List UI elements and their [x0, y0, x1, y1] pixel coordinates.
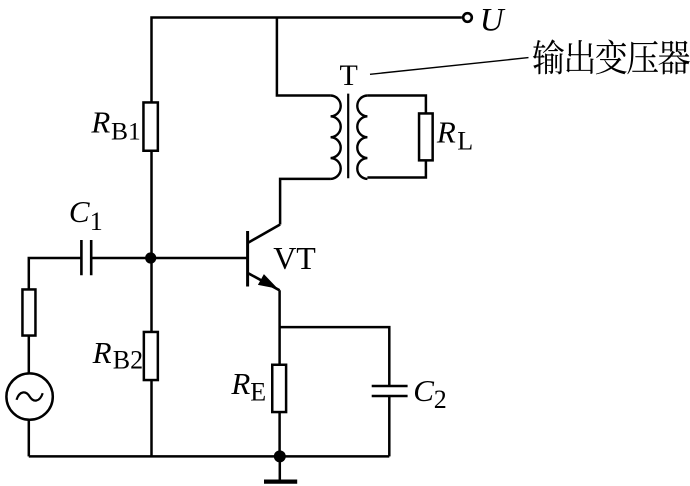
svg-text:C: C	[69, 194, 90, 229]
wire ground rail	[29, 455, 390, 458]
svg-text:R: R	[230, 366, 250, 401]
capacitor C2 plates	[372, 386, 408, 396]
svg-text:B2: B2	[113, 346, 143, 375]
wire top rail from RB1 branch to supply terminal	[152, 18, 462, 103]
wire transformer primary feed from top rail	[277, 18, 331, 96]
leader line to annotation	[370, 58, 529, 75]
resistor Rs source box	[22, 289, 35, 335]
wire base node down to RB2	[150, 258, 153, 332]
transformer T primary winding	[331, 96, 341, 179]
transformer core	[347, 94, 349, 179]
wire source bottom to ground rail	[28, 420, 31, 457]
svg-text:E: E	[250, 377, 266, 406]
resistor RB2 box	[144, 332, 158, 380]
transistor VT collector diagonal	[248, 225, 280, 243]
svg-text:2: 2	[434, 385, 447, 414]
transistor VT base bar	[246, 231, 249, 287]
wire C2 bottom to ground rail	[388, 396, 391, 456]
wire primary bottom lead to collector	[280, 179, 331, 225]
label 输出变压器 output transformer annotation	[533, 39, 690, 74]
svg-text:R: R	[436, 115, 456, 150]
resistor RB1 box	[143, 102, 157, 150]
ground stub	[279, 456, 282, 480]
transistor VT emitter arrowhead	[258, 274, 278, 289]
svg-text:B1: B1	[111, 116, 141, 145]
ground bar	[264, 480, 297, 484]
svg-text:VT: VT	[273, 240, 316, 276]
wire RE bottom to ground node	[278, 412, 281, 456]
svg-text:T: T	[340, 59, 358, 92]
node emitter ground junction dot	[274, 450, 286, 462]
svg-text:1: 1	[90, 207, 103, 236]
wire secondary top lead to RL	[367, 96, 426, 114]
svg-text:R: R	[92, 335, 112, 370]
source sine symbol	[17, 392, 43, 400]
svg-text:R: R	[90, 104, 110, 139]
transistor VT emitter diagonal	[248, 273, 279, 290]
resistor RE box	[272, 365, 286, 412]
node base junction dot	[145, 252, 156, 263]
resistor RL box	[419, 113, 433, 160]
svg-text:C: C	[413, 373, 434, 408]
svg-text:L: L	[457, 126, 473, 155]
svg-text:U: U	[480, 2, 506, 38]
wire RB2 bottom to ground rail	[150, 380, 153, 456]
node supply terminal circle	[463, 13, 472, 22]
wire secondary bottom lead from RL	[367, 160, 426, 177]
wire Rs to source circle	[28, 336, 31, 374]
source AC generator circle	[6, 373, 52, 419]
wire top rail down to RB1	[150, 152, 153, 258]
capacitor C1 plates	[81, 240, 91, 275]
wire base node to transistor base	[92, 257, 247, 260]
wire input line from source to C1	[29, 258, 82, 289]
wire emitter down to RE	[278, 290, 281, 365]
wire emitter branch to C2	[280, 327, 390, 386]
transformer T secondary winding	[357, 96, 367, 179]
